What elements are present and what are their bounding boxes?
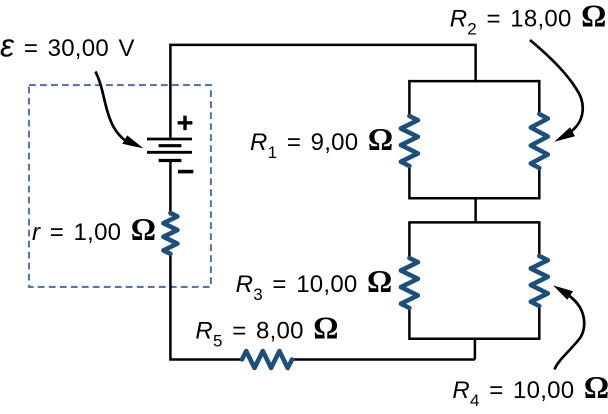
dashed box (battery internal boundary) bbox=[29, 85, 211, 287]
resistor R3 zigzag bbox=[401, 258, 418, 308]
resistor R5 zigzag (horizontal) bbox=[242, 351, 292, 368]
battery B1 plate short bbox=[159, 144, 182, 147]
wire: box2 bottom side bbox=[409, 338, 539, 341]
resistor R2 zigzag bbox=[531, 114, 548, 168]
wire: bottom right of R5 bbox=[292, 358, 475, 361]
wire: box2 left stubs bbox=[408, 221, 411, 340]
svg-text:r = 1,00 Ω: r = 1,00 Ω bbox=[32, 212, 156, 247]
svg-text:R2 = 18,00 Ω: R2 = 18,00 Ω bbox=[450, 0, 607, 39]
wire: connector box2-bottom bbox=[474, 339, 477, 360]
battery minus sign bbox=[178, 170, 193, 174]
svg-text:R1 = 9,00 Ω: R1 = 9,00 Ω bbox=[250, 122, 393, 162]
wire: box1 top side bbox=[409, 80, 539, 83]
resistor R4 zigzag bbox=[531, 256, 548, 306]
wire: box2 right stubs bbox=[538, 221, 541, 340]
wire: box1 left stubs bbox=[408, 80, 411, 200]
wire: connector box1-box2 bbox=[474, 198, 477, 222]
wire: box2 top side bbox=[409, 221, 539, 224]
battery B1 plate short bottom bbox=[159, 159, 182, 162]
wire: battery top up, top wire, down to box1 bbox=[170, 45, 475, 139]
arrow from R2 label to R2 bbox=[530, 40, 583, 132]
wire: box1 right stubs bbox=[538, 80, 541, 200]
resistor R1 zigzag bbox=[401, 116, 418, 166]
svg-text:R5 = 8,00 Ω: R5 = 8,00 Ω bbox=[195, 310, 338, 350]
arrow from EMF label to battery bbox=[96, 72, 125, 141]
battery B1 plate long top bbox=[147, 138, 192, 141]
wire: box1 bottom side bbox=[409, 197, 539, 200]
svg-text:R3 = 10,00 Ω: R3 = 10,00 Ω bbox=[236, 264, 393, 304]
arrow from R4 label to R4 bbox=[555, 296, 585, 370]
svg-text:R4 = 10,00 Ω: R4 = 10,00 Ω bbox=[452, 370, 608, 410]
wire: bottom left of R5 + left riser bbox=[170, 254, 242, 360]
battery B1 plate long bbox=[147, 151, 192, 154]
battery plus sign bbox=[178, 116, 193, 131]
wire: battery bottom to r top bbox=[169, 161, 172, 216]
svg-text:ε = 30,00 V: ε = 30,00 V bbox=[0, 27, 135, 63]
resistor r (internal) zigzag bbox=[163, 213, 177, 254]
